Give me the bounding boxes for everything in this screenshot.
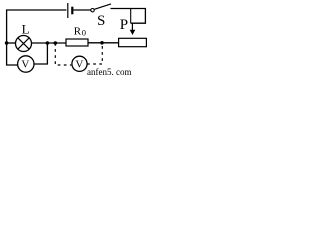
- svg-text:S: S: [97, 13, 105, 29]
- svg-text:V: V: [21, 58, 29, 70]
- svg-text:P: P: [120, 17, 128, 33]
- svg-text:L: L: [22, 22, 30, 37]
- svg-text:V: V: [75, 58, 83, 70]
- svg-text:R: R: [74, 26, 82, 38]
- svg-text:anfen5. com: anfen5. com: [87, 67, 131, 76]
- svg-text:0: 0: [82, 27, 86, 37]
